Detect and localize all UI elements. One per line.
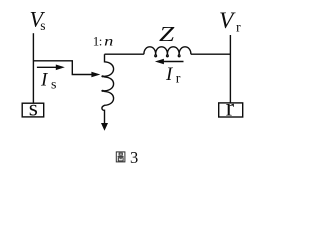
- caption glyph 圖 (drawn): [116, 152, 125, 162]
- wire top bus (node between transformer and Z): [105, 53, 144, 55]
- svg-text:I: I: [40, 70, 49, 91]
- svg-text:s: s: [29, 95, 38, 121]
- svg-text:Z: Z: [159, 22, 175, 46]
- box r: [219, 103, 243, 117]
- svg-text::: :: [99, 34, 103, 49]
- arrowhead transformer bottom (points down): [101, 123, 108, 131]
- wire right of Z to Vr bus: [191, 53, 231, 55]
- svg-text:r: r: [226, 95, 235, 122]
- arrowhead Is: [56, 65, 65, 71]
- svg-text:r: r: [176, 72, 181, 87]
- svg-text:V: V: [219, 8, 236, 34]
- wire horizontal upper left: [33, 61, 91, 75]
- current arrow Is shaft: [37, 66, 57, 68]
- svg-text:s: s: [51, 78, 56, 93]
- arrowhead Ir (points left): [155, 59, 164, 65]
- box s: [22, 103, 44, 117]
- transformer T1 primary coil: [102, 54, 114, 123]
- wire right vertical (Vr bus): [229, 35, 231, 103]
- svg-text:r: r: [236, 20, 241, 35]
- svg-text:I: I: [165, 64, 174, 85]
- inductor Z coil: [144, 47, 191, 57]
- wire left vertical (Vs bus): [32, 33, 34, 103]
- arrowhead into transformer: [91, 72, 100, 78]
- svg-text:3: 3: [130, 148, 138, 167]
- svg-text:s: s: [40, 18, 45, 33]
- current arrow Ir shaft: [164, 61, 184, 63]
- svg-text:n: n: [104, 35, 113, 50]
